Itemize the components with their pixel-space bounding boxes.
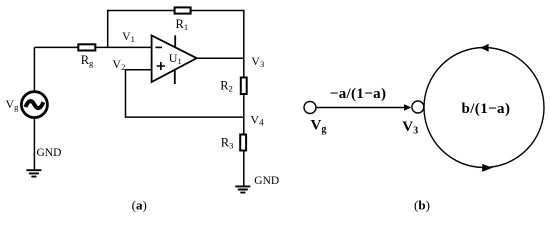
- svg-text:GND: GND: [254, 175, 279, 187]
- node Vg (source node, part b): [304, 102, 316, 114]
- resistor R3 (box): [240, 135, 246, 151]
- op-amp minus input mark: [155, 46, 162, 48]
- wire non-inverting input loop (V2 down and right to V4): [126, 70, 244, 117]
- wire source branch (down to circle): [33, 47, 35, 91]
- loop arrowhead bottom (pointing right): [482, 164, 492, 172]
- op-amp plus input mark: [157, 62, 165, 70]
- op-amp power pin bottom: [174, 70, 176, 84]
- wire main vertical right rail (V3 to ground): [243, 58, 245, 186]
- ground (left): [26, 170, 41, 176]
- svg-text:GND: GND: [37, 147, 62, 159]
- wire op-amp output to V3: [197, 57, 244, 59]
- node V3 (part b): [412, 101, 424, 113]
- ground (right): [235, 186, 250, 192]
- svg-text:−a/(1−a): −a/(1−a): [330, 86, 387, 102]
- svg-text:(b): (b): [414, 197, 430, 212]
- wire feedback loop (V1 node up, across top, down to V3): [108, 11, 244, 59]
- svg-text:(a): (a): [132, 197, 147, 212]
- wire input (source to op-amp inverting input): [34, 46, 151, 48]
- op-amp U1 (triangle): [152, 36, 197, 83]
- resistor Rg (box): [78, 44, 95, 50]
- source Vg (circle with sine): [21, 92, 47, 118]
- loop arrowhead top (pointing left): [480, 44, 488, 52]
- svg-text:b/(1−a): b/(1−a): [462, 101, 511, 117]
- resistor R2 (box): [241, 78, 247, 95]
- wire branch arrow Vg to V3: [317, 107, 405, 109]
- resistor R1 (box): [175, 7, 191, 13]
- op-amp power pin top: [174, 35, 176, 47]
- self-loop circle: [424, 48, 544, 168]
- wire source to ground: [33, 118, 35, 171]
